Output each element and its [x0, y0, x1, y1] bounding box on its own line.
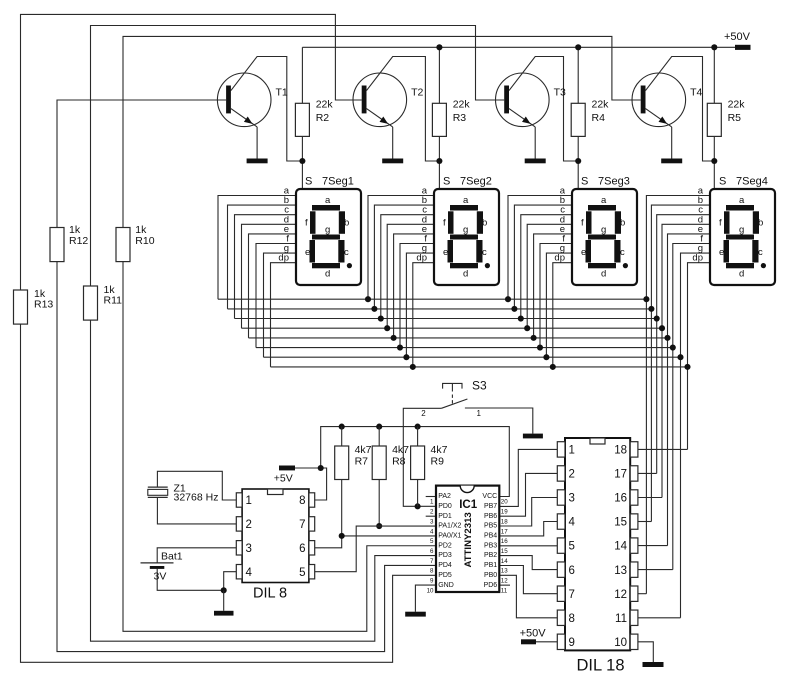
svg-text:PB7: PB7 [484, 503, 497, 510]
svg-text:DIL 8: DIL 8 [253, 586, 287, 602]
wire 7Seg1 pin e to bus [249, 234, 297, 338]
wire segment bus b [228, 308, 652, 310]
resistor R10 1k [116, 224, 155, 261]
svg-text:PD5: PD5 [438, 572, 452, 579]
ground DIL18 pin 10 [643, 662, 664, 667]
svg-text:12: 12 [614, 589, 627, 601]
ground DIL8 pin 4 [214, 611, 234, 616]
resistor R11 1k [84, 284, 123, 320]
wire Z1 bottom to DIL8 pin 2 [157, 497, 236, 524]
7-segment display 7Seg1 [278, 175, 361, 285]
svg-text:S3: S3 [472, 378, 487, 392]
wire segment bus e [249, 337, 668, 339]
resistor R12 1k [50, 224, 88, 261]
wire 7Seg3 pin c to bus [518, 215, 572, 322]
wire 7Seg2 pin c to bus [378, 215, 434, 322]
svg-text:PD1: PD1 [438, 513, 452, 520]
svg-text:f: f [719, 218, 722, 229]
svg-text:dp: dp [692, 253, 703, 264]
svg-text:6: 6 [299, 543, 305, 555]
wire T3 collector to S node [509, 57, 578, 162]
junction R7 bottom [339, 533, 345, 539]
svg-text:8: 8 [430, 568, 434, 575]
svg-text:g: g [601, 225, 606, 236]
wire 7Seg2 pin dp to bus [410, 263, 434, 370]
svg-text:1: 1 [430, 499, 434, 506]
svg-text:2: 2 [246, 519, 252, 531]
+50V supply terminal [724, 31, 751, 50]
wire 7Seg2 pin g to bus [403, 253, 434, 360]
svg-text:14: 14 [614, 541, 627, 553]
resistor R7 4k7 [335, 444, 372, 479]
svg-text:4k7: 4k7 [355, 444, 372, 456]
svg-text:11: 11 [615, 613, 627, 625]
svg-text:b: b [620, 218, 625, 229]
wire DIL18 pin 18 [638, 448, 688, 450]
svg-text:PB2: PB2 [484, 552, 497, 559]
svg-text:e: e [443, 247, 448, 258]
svg-text:4: 4 [430, 528, 434, 535]
svg-text:2: 2 [421, 409, 426, 418]
wire 7Seg4 pin e / DIL18 riser [664, 234, 710, 546]
wire 7Seg2 pin a to bus [365, 196, 434, 303]
wire IC1 PB1 to DIL18 pin 7 [499, 566, 557, 594]
svg-text:f: f [305, 218, 308, 229]
wire DIL18 pin 17 [638, 472, 657, 474]
wire 7Seg1 pin c to bus [235, 215, 297, 319]
svg-text:8: 8 [299, 495, 305, 507]
wire IC1 PB5 to DIL18 pin 3 [499, 498, 557, 527]
svg-text:g: g [739, 225, 744, 236]
svg-text:7: 7 [569, 589, 575, 601]
svg-text:PB1: PB1 [484, 562, 497, 569]
svg-text:a: a [325, 195, 331, 206]
svg-text:ATTINY2313: ATTINY2313 [463, 512, 474, 567]
svg-text:R4: R4 [592, 112, 606, 124]
7-segment display 7Seg2 [416, 175, 499, 285]
junction +5V node [318, 465, 324, 471]
junction R8 bottom [376, 523, 382, 529]
junction S node 1 [299, 158, 305, 164]
svg-text:9: 9 [430, 578, 434, 585]
junction R4 top [575, 44, 581, 50]
wire 7Seg1 pin g to bus [264, 253, 297, 357]
wire Z1 top to DIL8 pin 1 [157, 471, 236, 500]
svg-text:6: 6 [430, 548, 434, 555]
wire 7Seg3 pin e to bus [531, 234, 572, 341]
svg-text:d: d [325, 268, 330, 279]
svg-text:PD3: PD3 [438, 552, 452, 559]
svg-text:10: 10 [614, 637, 627, 649]
svg-text:+50V: +50V [724, 31, 751, 43]
ground IC1 GND [405, 612, 426, 617]
svg-text:5: 5 [569, 541, 575, 553]
svg-text:4: 4 [246, 567, 253, 579]
svg-text:R12: R12 [69, 235, 88, 247]
wire S column 2 (+50V through R3 to 7Seg2 S pin) [438, 47, 440, 189]
svg-text:R7: R7 [355, 455, 369, 467]
wire +50V to DIL18 pin 9 [536, 641, 557, 643]
7-segment display 7Seg3 [554, 175, 637, 285]
svg-text:c: c [344, 247, 349, 258]
wire segment bus c [235, 318, 657, 320]
wire 7Seg1 pin dp to bus [271, 263, 297, 367]
svg-text:7Seg4: 7Seg4 [736, 175, 768, 187]
wire segment bus d [242, 327, 663, 329]
DIL18 socket [557, 438, 638, 675]
svg-text:g: g [463, 225, 468, 236]
resistor R5 22k [707, 99, 745, 137]
svg-text:7: 7 [430, 558, 434, 565]
svg-text:Bat1: Bat1 [161, 550, 183, 562]
svg-text:19: 19 [501, 509, 508, 516]
junction R8 top [376, 424, 382, 430]
resistor R8 4k7 [372, 444, 409, 479]
svg-text:c: c [758, 247, 763, 258]
transistor Q T1 [217, 73, 288, 159]
junction Bat1 ground node [221, 587, 227, 593]
svg-text:1: 1 [477, 409, 482, 418]
junction R3 top [436, 44, 442, 50]
resistor R13 1k [14, 288, 54, 324]
wire IC1 PD6 stub [499, 584, 510, 586]
wire 7Seg4 pin g / DIL18 riser [677, 253, 710, 618]
svg-text:6: 6 [569, 565, 575, 577]
svg-text:16: 16 [501, 538, 508, 545]
wire DIL18 pin 12 [638, 593, 647, 595]
wire IC1 PB4 to DIL18 pin 4 [499, 522, 557, 536]
svg-text:4: 4 [569, 517, 576, 529]
junction S node 3 [575, 158, 581, 164]
ground T3 emitter [525, 159, 546, 164]
svg-text:f: f [581, 218, 584, 229]
svg-text:22k: 22k [316, 99, 334, 111]
junction R7 top [339, 424, 345, 430]
svg-text:R3: R3 [453, 112, 467, 124]
wire IC1 PB6 to DIL18 pin 2 [499, 473, 557, 516]
wire R8 column [378, 427, 380, 526]
svg-text:13: 13 [614, 565, 627, 577]
wire IC1 PA2 stub [426, 496, 436, 498]
wire 7Seg4 pin b / DIL18 riser [648, 205, 710, 521]
svg-text:7: 7 [299, 519, 305, 531]
wire 7Seg4 pin f / DIL18 riser [670, 244, 710, 570]
svg-text:1: 1 [246, 495, 252, 507]
svg-text:1: 1 [569, 445, 575, 457]
svg-text:10: 10 [427, 587, 434, 594]
svg-text:g: g [325, 225, 330, 236]
wire net PD4 / R12 rail to T1 base [57, 100, 436, 652]
wire 7Seg2 pin d to bus [384, 224, 434, 331]
svg-text:R8: R8 [392, 455, 406, 467]
svg-text:dp: dp [554, 253, 565, 264]
svg-text:18: 18 [501, 518, 508, 525]
svg-text:R13: R13 [34, 299, 53, 311]
svg-text:PB3: PB3 [484, 542, 497, 549]
svg-text:3: 3 [569, 493, 575, 505]
svg-text:15: 15 [501, 548, 508, 555]
+50V terminal at DIL18 pin 9 [520, 627, 547, 644]
ground T1 emitter [247, 159, 268, 164]
resistor R9 4k7 [411, 444, 448, 479]
wire IC1 PB7 to DIL18 pin 1 [499, 449, 557, 506]
svg-text:T3: T3 [554, 86, 566, 98]
svg-text:d: d [463, 268, 468, 279]
wire 7Seg1 pin d to bus [242, 224, 297, 328]
svg-text:T4: T4 [690, 86, 702, 98]
switch S3 [421, 378, 533, 433]
svg-text:5: 5 [299, 567, 305, 579]
wire 7Seg1 pin f to bus [256, 244, 296, 348]
svg-text:7Seg2: 7Seg2 [460, 175, 492, 187]
7-segment display 7Seg4 [692, 175, 775, 285]
svg-text:22k: 22k [728, 99, 746, 111]
wire PA1-X2 to DIL8 pin5 [315, 526, 436, 572]
svg-text:13: 13 [501, 568, 508, 575]
svg-text:4k7: 4k7 [431, 444, 448, 456]
svg-text:4k7: 4k7 [392, 444, 409, 456]
wire T1 collector to S node [231, 57, 303, 162]
svg-text:b: b [344, 218, 349, 229]
svg-text:PB6: PB6 [484, 513, 497, 520]
wire net PD5 / R13 rail to T2 base [21, 14, 437, 662]
wire DIL18 pin 15 [638, 521, 652, 523]
wire S3 pin 2 to PD0 [403, 408, 441, 506]
wire S column 3 (+50V through R4 to 7Seg3 S pin) [577, 47, 579, 189]
svg-text:11: 11 [501, 587, 508, 594]
svg-text:PB5: PB5 [484, 523, 497, 530]
svg-text:2: 2 [569, 469, 575, 481]
svg-text:20: 20 [501, 499, 508, 506]
wire 7Seg2 pin f to bus [397, 244, 434, 351]
junction R9 top [415, 424, 421, 430]
svg-text:+5V: +5V [274, 472, 293, 484]
svg-text:17: 17 [501, 528, 508, 535]
svg-text:dp: dp [416, 253, 427, 264]
transistor Q T2 [353, 73, 424, 159]
crystal Z1 32768 Hz [148, 482, 219, 503]
svg-text:dp: dp [278, 253, 289, 264]
wire IC1 PB0 to DIL18 pin 8 [499, 575, 557, 618]
svg-text:VCC: VCC [482, 493, 497, 500]
svg-text:17: 17 [614, 469, 627, 481]
resistor R4 22k [571, 99, 609, 137]
svg-text:R5: R5 [728, 112, 742, 124]
wire T4 collector to S node [646, 57, 715, 162]
wire segment bus a [218, 298, 646, 300]
svg-text:S: S [719, 175, 726, 187]
svg-text:d: d [739, 268, 744, 279]
wire 7Seg4 pin a / DIL18 riser [643, 196, 710, 594]
svg-text:PA2: PA2 [438, 493, 451, 500]
wire segment bus dp [271, 366, 688, 368]
wire +5V to DIL8 pin 8 [295, 468, 327, 500]
svg-text:DIL 18: DIL 18 [577, 657, 625, 675]
junction S node 2 [436, 158, 442, 164]
ground T4 emitter [661, 159, 682, 164]
wire DIL18 pin 14 [638, 545, 668, 547]
svg-text:R9: R9 [431, 455, 445, 467]
svg-text:PD2: PD2 [438, 542, 452, 549]
wire T2 collector to S node [367, 57, 440, 162]
wire Bat1 minus to DIL8 pin 4 and ground [157, 569, 236, 591]
junction R5 top [711, 44, 717, 50]
wire segment bus f [256, 347, 673, 349]
svg-text:PB4: PB4 [484, 533, 497, 540]
wire S column 1 (+50V through R2 to 7Seg1 S pin) [301, 47, 303, 189]
wire to DIL8 ground [223, 590, 225, 611]
wire 7Seg2 pin b to bus [371, 205, 434, 312]
wire 7Seg3 pin d to bus [524, 224, 572, 331]
wire IC1 PB3 to DIL18 pin 5 [499, 545, 557, 547]
svg-text:a: a [463, 195, 469, 206]
svg-text:e: e [305, 247, 310, 258]
svg-text:R10: R10 [135, 235, 154, 247]
resistor R2 22k [295, 99, 333, 137]
svg-text:PD4: PD4 [438, 562, 452, 569]
svg-text:a: a [601, 195, 607, 206]
wire IC1 PB2 to DIL18 pin 6 [499, 556, 557, 570]
svg-text:5: 5 [430, 538, 434, 545]
wire IC1 PD1 stub [426, 515, 436, 517]
svg-text:d: d [601, 268, 606, 279]
svg-text:16: 16 [614, 493, 627, 505]
junction R9 bottom / PD0 [415, 503, 421, 509]
wire IC1 GND to ground [415, 585, 436, 612]
svg-text:b: b [482, 218, 487, 229]
IC U1 ATTINY2313 [427, 486, 509, 595]
wire 7Seg3 pin b to bus [511, 205, 572, 312]
svg-text:PD6: PD6 [484, 582, 498, 589]
svg-text:PD0: PD0 [438, 503, 452, 510]
wire net PD3 / R11 rail to T3 base [91, 26, 505, 642]
svg-text:22k: 22k [453, 99, 471, 111]
svg-text:32768 Hz: 32768 Hz [174, 492, 219, 504]
wire 7Seg3 pin a to bus [505, 196, 572, 303]
wire +5V rail to VCC [321, 427, 510, 497]
junction S node 4 [711, 158, 717, 164]
DIL8 socket [236, 489, 314, 602]
wire 7Seg4 pin d / DIL18 riser [659, 224, 710, 497]
wire 7Seg4 pin dp / DIL18 riser [684, 263, 710, 450]
svg-text:14: 14 [501, 558, 508, 565]
wire net PD2 / R10 rail to T4 base [123, 36, 641, 631]
wire 7Seg3 pin g to bus [543, 253, 572, 360]
svg-text:T1: T1 [276, 86, 288, 98]
svg-text:15: 15 [614, 517, 627, 529]
svg-text:7Seg1: 7Seg1 [322, 175, 354, 187]
svg-text:b: b [758, 218, 763, 229]
transistor Q T4 [632, 73, 703, 159]
wire DIL18 pin 11 [638, 617, 681, 619]
svg-text:e: e [581, 247, 586, 258]
ground T2 emitter [382, 159, 403, 164]
wire DIL18 pin 13 [638, 569, 673, 571]
wire 7Seg3 pin dp to bus [550, 263, 572, 370]
wire 7Seg2 pin e to bus [391, 234, 434, 341]
wire +50V rail [302, 46, 735, 48]
svg-text:f: f [443, 218, 446, 229]
wire R9 column [417, 427, 419, 507]
svg-text:T2: T2 [411, 86, 423, 98]
transistor Q T3 [496, 73, 567, 159]
svg-text:R11: R11 [104, 295, 123, 307]
svg-text:8: 8 [569, 613, 575, 625]
svg-text:12: 12 [501, 578, 508, 585]
svg-text:PA0/X1: PA0/X1 [438, 533, 461, 540]
svg-text:3: 3 [246, 543, 252, 555]
wire 7Seg1 pin b to bus [228, 205, 297, 309]
svg-text:c: c [620, 247, 625, 258]
svg-text:R2: R2 [316, 112, 330, 124]
svg-text:9: 9 [569, 637, 575, 649]
+5V terminal [274, 466, 295, 485]
wire 7Seg1 pin a to bus [218, 196, 296, 300]
battery Bat1 3V [141, 550, 183, 582]
wire S column 4 (+50V through R5 to 7Seg4 S pin) [713, 47, 715, 189]
wire R7 column / PA0-X1 to DIL8 pin6 [315, 427, 436, 548]
wire DIL18 pin 10 to ground [638, 642, 653, 662]
svg-text:c: c [482, 247, 487, 258]
svg-text:3: 3 [430, 518, 434, 525]
svg-text:S: S [443, 175, 450, 187]
svg-text:S: S [581, 175, 588, 187]
svg-text:18: 18 [614, 445, 627, 457]
svg-text:7Seg3: 7Seg3 [598, 175, 630, 187]
svg-text:PB0: PB0 [484, 572, 497, 579]
resistor R3 22k [432, 99, 470, 137]
svg-text:IC1: IC1 [459, 499, 478, 511]
svg-text:e: e [719, 247, 724, 258]
svg-text:3V: 3V [154, 571, 167, 583]
svg-text:22k: 22k [592, 99, 610, 111]
svg-text:2: 2 [430, 509, 434, 516]
svg-text:S: S [305, 175, 312, 187]
wire 7Seg4 pin c / DIL18 riser [654, 215, 710, 474]
wire segment bus g [264, 356, 681, 358]
wire 7Seg3 pin f to bus [537, 244, 572, 351]
wire DIL18 pin 16 [638, 497, 662, 499]
wire Bat1 plus to DIL8 pin 3 [157, 548, 236, 563]
svg-text:GND: GND [438, 582, 454, 589]
svg-text:a: a [739, 195, 745, 206]
ground S3 pin 1 [523, 434, 543, 439]
svg-text:+50V: +50V [520, 627, 547, 639]
svg-text:PA1/X2: PA1/X2 [438, 523, 461, 530]
